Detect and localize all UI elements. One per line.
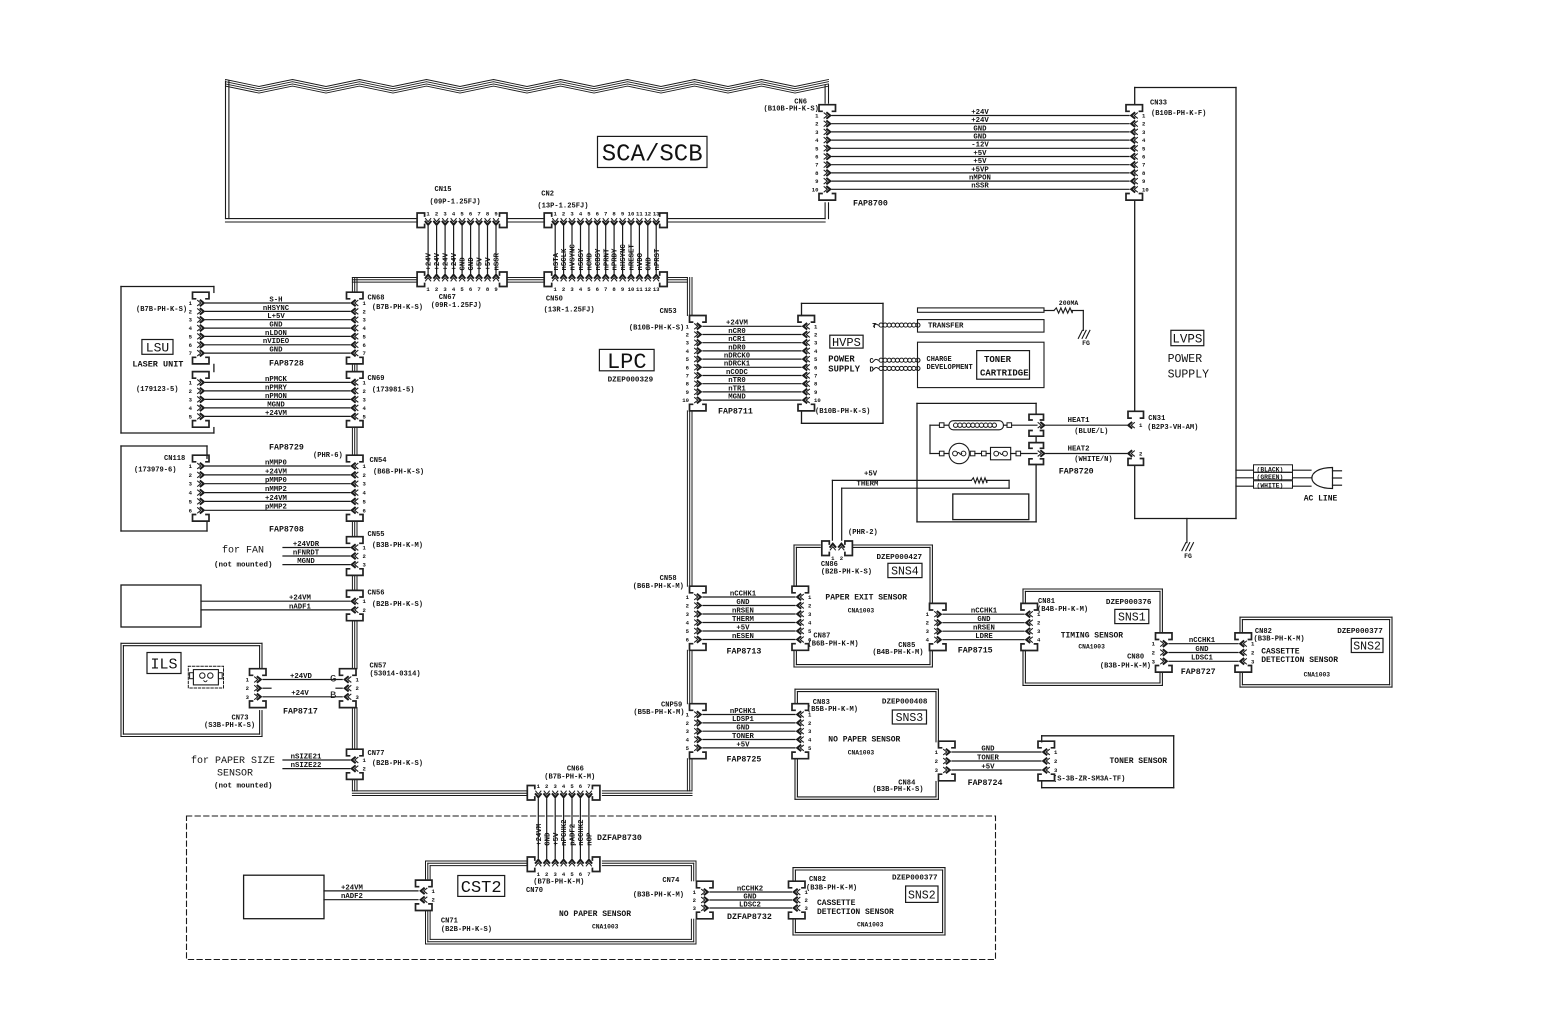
label CN67 bbox=[431, 294, 482, 310]
svg-text:FAP8700: FAP8700 bbox=[853, 200, 888, 209]
wire nSTA (CN2-CN50) bbox=[553, 227, 561, 274]
svg-text:nDRCK0: nDRCK0 bbox=[724, 353, 750, 361]
wire +5V (FAP8725) bbox=[703, 741, 795, 749]
connector CNP59 bbox=[686, 704, 706, 759]
svg-text:7: 7 bbox=[686, 373, 689, 380]
label CN71 bbox=[441, 918, 492, 935]
svg-text:CN87: CN87 bbox=[813, 633, 830, 641]
wire HEAT1 (FAP8720) bbox=[1046, 417, 1127, 436]
svg-text:FAP8708: FAP8708 bbox=[269, 526, 304, 535]
SCA/SCB board outline (torn-edge top) bbox=[226, 80, 829, 223]
svg-text:DZEP000427: DZEP000427 bbox=[877, 554, 923, 562]
svg-text:PAPER EXIT SENSOR: PAPER EXIT SENSOR bbox=[825, 593, 907, 602]
wire +5V (FAP8713) bbox=[703, 624, 795, 632]
svg-text:(B7B-PH-K-S): (B7B-PH-K-S) bbox=[372, 304, 423, 312]
svg-text:(173979-6): (173979-6) bbox=[134, 467, 177, 475]
svg-text:nSSR: nSSR bbox=[494, 252, 502, 270]
svg-text:SNS4: SNS4 bbox=[891, 566, 919, 579]
connector LSU video connector bbox=[189, 292, 209, 364]
svg-text:+24V: +24V bbox=[971, 117, 989, 125]
label CN66 bbox=[544, 766, 595, 782]
wire nVDO (CN2-CN50) bbox=[637, 227, 645, 274]
LSU title bbox=[132, 340, 183, 370]
wire MGND (fan cable) bbox=[283, 558, 350, 566]
wire LDRE (FAP8715) bbox=[943, 633, 1024, 641]
svg-text:nCR1: nCR1 bbox=[728, 336, 746, 344]
wire +24VM (FAP8708) bbox=[206, 495, 350, 503]
svg-text:-12V: -12V bbox=[971, 142, 989, 150]
label harness FAP8720 bbox=[1059, 468, 1094, 477]
svg-text:for FAN: for FAN bbox=[222, 545, 264, 557]
wire +24VM (FAP8729) bbox=[206, 410, 350, 418]
wire nCR0 (FAP8711) bbox=[703, 328, 801, 336]
svg-text:nSIZE22: nSIZE22 bbox=[291, 762, 322, 770]
heater connector HEAT2 (fuser side) bbox=[1029, 443, 1044, 465]
connector CN54 bbox=[347, 455, 367, 521]
fuser unit outline bbox=[917, 403, 1036, 522]
svg-text:10: 10 bbox=[814, 397, 821, 404]
wire pMMP0 (FAP8708) bbox=[206, 477, 350, 485]
svg-text:DETECTION SENSOR: DETECTION SENSOR bbox=[1261, 656, 1338, 665]
wire MGND (FAP8729) bbox=[206, 401, 350, 409]
svg-text:(PHR-6): (PHR-6) bbox=[313, 452, 343, 460]
svg-text:nCCHK2: nCCHK2 bbox=[737, 885, 763, 893]
svg-text:(09P-1.25FJ): (09P-1.25FJ) bbox=[430, 199, 481, 207]
wire nRSEN (FAP8713) bbox=[703, 607, 795, 615]
svg-text:CN118: CN118 bbox=[164, 455, 185, 463]
svg-text:nSSR: nSSR bbox=[971, 183, 989, 191]
wire THERM (FAP8713) bbox=[703, 616, 795, 624]
svg-text:(B6B-PH-K-M): (B6B-PH-K-M) bbox=[633, 583, 684, 591]
CST2 board outline bbox=[426, 861, 697, 944]
svg-text:(B2B-PH-K-S): (B2B-PH-K-S) bbox=[441, 926, 492, 934]
label harness DZFAP8730 bbox=[597, 834, 642, 843]
connector CN86 bbox=[822, 541, 853, 562]
connector CN77 bbox=[347, 749, 367, 779]
LVPS power supply outline bbox=[1135, 88, 1236, 519]
svg-text:+24V: +24V bbox=[426, 252, 434, 270]
svg-text:nSIZE21: nSIZE21 bbox=[291, 753, 322, 761]
svg-text:nSBSY: nSBSY bbox=[578, 248, 586, 271]
svg-text:7: 7 bbox=[477, 286, 480, 293]
svg-text:nCMD: nCMD bbox=[587, 252, 595, 270]
svg-text:CN77: CN77 bbox=[368, 750, 385, 758]
label harness FAP8727 bbox=[1181, 668, 1216, 677]
svg-text:+5V: +5V bbox=[553, 832, 561, 846]
svg-text:(GREEN): (GREEN) bbox=[1257, 474, 1284, 481]
connector LSU motor connector bbox=[189, 372, 209, 428]
LSU laser unit outline bbox=[121, 287, 214, 434]
wire heater loop (lamp to thermostat) bbox=[930, 425, 1037, 453]
svg-text:GND: GND bbox=[544, 832, 552, 846]
connector CN83 bbox=[792, 704, 812, 759]
svg-text:nVDO: nVDO bbox=[637, 252, 645, 270]
svg-text:L+5V: L+5V bbox=[267, 313, 285, 321]
wire nCCHK2 (DZFAP8730) bbox=[578, 799, 586, 858]
svg-text:SNS2: SNS2 bbox=[1353, 641, 1381, 654]
svg-text:FAP8727: FAP8727 bbox=[1181, 668, 1216, 677]
svg-text:+24VM: +24VM bbox=[726, 320, 749, 328]
svg-text:nDRCK1: nDRCK1 bbox=[724, 361, 751, 369]
wire nCBSY (CN2-CN50) bbox=[595, 227, 603, 274]
wire GND (FAP8700) bbox=[832, 125, 1129, 133]
svg-text:nPMCK: nPMCK bbox=[265, 376, 288, 384]
wire nCCHK1 (FAP8727) bbox=[1169, 637, 1238, 645]
svg-text:+24VM: +24VM bbox=[265, 495, 288, 503]
wire GND (FAP8728) bbox=[206, 347, 350, 355]
svg-text:(B4B-PH-K-M): (B4B-PH-K-M) bbox=[1037, 606, 1088, 614]
svg-text:GND: GND bbox=[460, 257, 468, 271]
svg-text:+5V: +5V bbox=[477, 257, 485, 271]
svg-text:nPRNT: nPRNT bbox=[603, 248, 611, 271]
label CN73 bbox=[204, 715, 255, 731]
svg-text:HVPS: HVPS bbox=[832, 336, 861, 350]
svg-text:nVIDEO: nVIDEO bbox=[263, 338, 290, 346]
svg-text:nCCHK1: nCCHK1 bbox=[971, 608, 998, 616]
svg-text:(B10B-PH-K-S): (B10B-PH-K-S) bbox=[764, 106, 819, 114]
wire nVSYNC (CN2-CN50) bbox=[570, 227, 578, 274]
label harness FAP8729 bbox=[269, 444, 304, 453]
svg-text:CN2: CN2 bbox=[541, 190, 554, 198]
svg-text:nCR0: nCR0 bbox=[728, 328, 746, 336]
wire nCMD (CN2-CN50) bbox=[587, 227, 595, 274]
svg-text:CNA1003: CNA1003 bbox=[1078, 643, 1105, 650]
connector CN74 bbox=[693, 881, 713, 919]
svg-text:nCCHK2: nCCHK2 bbox=[578, 820, 586, 846]
svg-text:+24VD: +24VD bbox=[290, 673, 313, 681]
svg-text:FAP8729: FAP8729 bbox=[269, 444, 304, 453]
wire nCR1 (FAP8711) bbox=[703, 336, 801, 344]
svg-text:(B7B-PH-K-M): (B7B-PH-K-M) bbox=[544, 774, 595, 782]
wire L+5V (FAP8728) bbox=[206, 313, 350, 321]
wire GND (CN15-CN67) bbox=[468, 227, 476, 274]
connector CN118 connector bbox=[189, 455, 209, 521]
svg-text:7: 7 bbox=[477, 210, 480, 217]
svg-text:GND: GND bbox=[269, 347, 283, 355]
svg-text:FAP8717: FAP8717 bbox=[283, 708, 318, 717]
wire nMMP2 (FAP8708) bbox=[206, 486, 350, 494]
svg-text:(B2B-PH-K-S): (B2B-PH-K-S) bbox=[821, 568, 872, 576]
connector toner sensor connector bbox=[1038, 741, 1058, 781]
thermistor body box bbox=[953, 494, 1029, 520]
svg-text:POWER: POWER bbox=[1168, 353, 1203, 366]
svg-text:+24VM: +24VM bbox=[536, 823, 544, 846]
wire LDSP1 (FAP8725) bbox=[703, 716, 795, 724]
svg-text:(not mounted): (not mounted) bbox=[214, 782, 273, 790]
label harness FAP8724 bbox=[968, 779, 1003, 788]
thermistor resistor bbox=[832, 470, 1009, 488]
wire nSBSY (CN2-CN50) bbox=[578, 227, 586, 274]
wire +5V (DZFAP8730) bbox=[553, 799, 561, 858]
svg-text:DZFAP8732: DZFAP8732 bbox=[727, 913, 772, 922]
wire nDRCK1 (FAP8711) bbox=[703, 361, 801, 369]
svg-text:(B6B-PH-K-M): (B6B-PH-K-M) bbox=[808, 640, 859, 648]
svg-text:CN56: CN56 bbox=[368, 590, 385, 598]
HVPS title bbox=[828, 335, 863, 374]
svg-text:CNA1003: CNA1003 bbox=[857, 922, 884, 929]
svg-text:TONER SENSOR: TONER SENSOR bbox=[1110, 757, 1168, 766]
connector CN2 bbox=[544, 210, 667, 227]
motor CN118 box bbox=[121, 446, 207, 531]
label CN6 bbox=[764, 99, 819, 114]
label CN33 bbox=[1150, 100, 1206, 119]
svg-text:nMMP0: nMMP0 bbox=[265, 459, 287, 467]
wire +5V (FAP8724) bbox=[952, 763, 1041, 771]
svg-text:nDR0: nDR0 bbox=[728, 344, 746, 352]
connector CN31 bbox=[1128, 411, 1144, 465]
svg-text:DZEP000377: DZEP000377 bbox=[1337, 628, 1383, 636]
wire GND (FAP8713) bbox=[703, 599, 795, 607]
wire +5V (FAP8700) bbox=[832, 158, 1129, 166]
wire stub pin2 (FAP8717) bbox=[263, 687, 342, 689]
svg-text:nRSEN: nRSEN bbox=[973, 625, 995, 633]
svg-text:DZEP000377: DZEP000377 bbox=[892, 875, 938, 883]
svg-text:CST2: CST2 bbox=[461, 879, 502, 898]
connector CN53 bbox=[682, 316, 706, 411]
cassette detection sensor board outline (SNS2 bottom) bbox=[793, 868, 945, 935]
wire TONER (FAP8724) bbox=[952, 754, 1041, 762]
svg-text:nRESET: nRESET bbox=[629, 244, 637, 271]
svg-text:+5VP: +5VP bbox=[971, 166, 989, 174]
svg-text:(B3B-PH-K-M): (B3B-PH-K-M) bbox=[372, 542, 423, 550]
svg-text:LDSP1: LDSP1 bbox=[732, 716, 755, 724]
ILS connector footprint icon bbox=[188, 666, 223, 688]
wire nHSYNC (FAP8728) bbox=[206, 305, 350, 313]
label CN2 bbox=[537, 190, 588, 210]
label HVPS input connector bbox=[815, 408, 870, 416]
connector CN73 bbox=[246, 669, 266, 708]
wire nADF2 (ADF2 cable) bbox=[324, 893, 418, 901]
svg-text:nTR1: nTR1 bbox=[728, 385, 746, 393]
svg-text:nCODC: nCODC bbox=[726, 369, 749, 377]
svg-text:NO PAPER SENSOR: NO PAPER SENSOR bbox=[828, 736, 900, 745]
svg-text:CNA1003: CNA1003 bbox=[848, 750, 875, 757]
svg-text:(not mounted): (not mounted) bbox=[214, 561, 273, 569]
ILS title bbox=[147, 653, 181, 674]
wire MGND (FAP8711) bbox=[703, 394, 801, 402]
wire +5V (FAP8700) bbox=[832, 150, 1129, 158]
svg-text:nPCHK1: nPCHK1 bbox=[730, 708, 757, 716]
label harness FAP8715 bbox=[958, 647, 993, 656]
svg-text:(B3B-PH-K-M): (B3B-PH-K-M) bbox=[1254, 635, 1305, 643]
wire nFNRDT (fan cable) bbox=[283, 549, 350, 557]
label CN57 bbox=[370, 663, 421, 679]
wire GND (DZFAP8732) bbox=[710, 893, 792, 901]
wire THERM drop to CN86 pin2 bbox=[841, 488, 843, 540]
label CN86 (PHR-2) bbox=[848, 529, 878, 537]
wire LDSC1 (FAP8727) bbox=[1169, 655, 1238, 663]
svg-text:(WHITE/N): (WHITE/N) bbox=[1074, 456, 1112, 464]
svg-text:TONER: TONER bbox=[977, 754, 1000, 762]
option box (nADF2 source) bbox=[244, 875, 324, 919]
svg-text:nPCHK2: nPCHK2 bbox=[561, 820, 569, 846]
wire nLDON (FAP8728) bbox=[206, 330, 350, 338]
svg-text:nADF1: nADF1 bbox=[289, 603, 312, 611]
svg-text:(B7B-PH-K-M): (B7B-PH-K-M) bbox=[533, 879, 584, 887]
svg-text:FAP8711: FAP8711 bbox=[718, 408, 753, 417]
wire pMMP2 (FAP8708) bbox=[206, 504, 350, 512]
svg-text:FAP8724: FAP8724 bbox=[968, 779, 1003, 788]
svg-text:DZEP000329: DZEP000329 bbox=[608, 376, 654, 384]
wire nSCLK (CN2-CN50) bbox=[561, 227, 569, 274]
svg-text:DZEP000408: DZEP000408 bbox=[882, 698, 928, 706]
label harness FAP8717 bbox=[283, 708, 318, 717]
svg-text:CHARGE: CHARGE bbox=[927, 356, 952, 364]
svg-text:(BLUE/L): (BLUE/L) bbox=[1074, 428, 1108, 436]
svg-text:CN80: CN80 bbox=[1127, 654, 1144, 662]
label LSU video connector bbox=[136, 306, 187, 314]
label CN58 bbox=[633, 575, 684, 591]
wire nTR0 (FAP8711) bbox=[703, 377, 801, 385]
wire nPCHK1 (FAP8725) bbox=[703, 708, 795, 716]
svg-text:C: C bbox=[870, 358, 874, 366]
charge/development outputs C and D bbox=[870, 342, 1045, 387]
svg-text:+24V: +24V bbox=[291, 690, 309, 698]
svg-text:+24V: +24V bbox=[434, 252, 442, 270]
option box (nADF1 source) bbox=[121, 585, 201, 627]
svg-text:B: B bbox=[330, 690, 336, 702]
svg-text:11: 11 bbox=[636, 286, 643, 293]
svg-text:(179123-5): (179123-5) bbox=[136, 386, 179, 394]
wire nDRCK0 (FAP8711) bbox=[703, 353, 801, 361]
svg-text:+24V: +24V bbox=[451, 252, 459, 270]
wire +24V (FAP8717) bbox=[263, 690, 342, 698]
svg-text:+5V: +5V bbox=[485, 257, 493, 271]
svg-text:nCBSY: nCBSY bbox=[595, 248, 603, 271]
svg-text:pADF2: pADF2 bbox=[570, 824, 578, 846]
svg-text:FAP8713: FAP8713 bbox=[727, 648, 762, 657]
svg-text:pMMP2: pMMP2 bbox=[265, 504, 287, 512]
wire nPMCK (FAP8729) bbox=[206, 376, 350, 384]
svg-text:AC LINE: AC LINE bbox=[1304, 494, 1338, 503]
svg-text:TONER: TONER bbox=[732, 733, 755, 741]
svg-text:GND: GND bbox=[743, 893, 757, 901]
wire nVIDEO (FAP8728) bbox=[206, 338, 350, 346]
svg-text:nVSYNC: nVSYNC bbox=[570, 244, 578, 271]
AC line plug bbox=[1236, 465, 1342, 504]
wire pADF2 (DZFAP8730) bbox=[570, 799, 578, 858]
svg-text:+5V: +5V bbox=[864, 470, 878, 478]
timing sensor board outline (SNS1) bbox=[1023, 589, 1162, 685]
label CNP59 bbox=[633, 701, 684, 717]
connector CN50 bbox=[544, 272, 667, 293]
svg-text:HEAT2: HEAT2 bbox=[1068, 445, 1090, 453]
label harness FAP8700 bbox=[853, 200, 888, 209]
svg-text:GND: GND bbox=[1195, 646, 1209, 654]
svg-text:FG: FG bbox=[1082, 340, 1090, 347]
transfer roller bar bbox=[918, 308, 1045, 312]
connector CN87 bbox=[792, 586, 812, 650]
label CN50 bbox=[544, 296, 595, 315]
svg-text:nPRDY: nPRDY bbox=[612, 248, 620, 271]
connector CN68 bbox=[347, 292, 367, 364]
wire GND (FAP8715) bbox=[943, 616, 1024, 624]
CST2 title bbox=[458, 876, 631, 931]
label harness FAP8725 bbox=[727, 756, 762, 765]
svg-text:GND: GND bbox=[269, 321, 283, 329]
wire TONER (FAP8725) bbox=[703, 733, 795, 741]
svg-text:CN50: CN50 bbox=[546, 296, 563, 304]
svg-text:LSU: LSU bbox=[146, 341, 169, 356]
wire +24V (CN15-CN67) bbox=[434, 227, 442, 274]
svg-text:CNA1003: CNA1003 bbox=[1304, 671, 1331, 678]
svg-text:+24VM: +24VM bbox=[265, 468, 288, 476]
svg-text:10: 10 bbox=[1142, 186, 1149, 193]
svg-text:(B10B-PH-K-F): (B10B-PH-K-F) bbox=[1151, 110, 1206, 118]
svg-text:CNA1003: CNA1003 bbox=[592, 924, 619, 931]
svg-text:CN71: CN71 bbox=[441, 918, 458, 926]
label for FAN bbox=[214, 545, 273, 570]
label CN53 bbox=[629, 308, 684, 333]
wire nSSR (CN15-CN67) bbox=[494, 227, 502, 274]
svg-text:(S-3B-ZR-SM3A-TF): (S-3B-ZR-SM3A-TF) bbox=[1053, 776, 1125, 784]
frame ground FG (LVPS) bbox=[1182, 519, 1194, 561]
connector CN69 bbox=[347, 372, 367, 428]
svg-text:(13R-1.25FJ): (13R-1.25FJ) bbox=[544, 307, 595, 315]
svg-text:MGND: MGND bbox=[267, 401, 285, 409]
wire nSSR (FAP8700) bbox=[832, 183, 1129, 191]
svg-text:SNS1: SNS1 bbox=[1118, 612, 1146, 625]
wire nMMP0 (FAP8708) bbox=[206, 459, 350, 467]
label harness FAP8713 bbox=[727, 648, 762, 657]
svg-text:CNA1003: CNA1003 bbox=[848, 607, 875, 614]
svg-text:(B4B-PH-K-M): (B4B-PH-K-M) bbox=[872, 649, 923, 657]
svg-text:nMPON: nMPON bbox=[969, 175, 991, 183]
svg-text:SUPPLY: SUPPLY bbox=[1168, 369, 1210, 382]
svg-text:G: G bbox=[330, 674, 336, 686]
wire nPRST (CN2-CN50) bbox=[654, 227, 662, 274]
svg-text:nSCLK: nSCLK bbox=[561, 248, 569, 271]
svg-text:SCA/SCB: SCA/SCB bbox=[602, 142, 703, 169]
svg-text:(B2P3-VH-AM): (B2P3-VH-AM) bbox=[1147, 424, 1198, 432]
wire -12V (FAP8700) bbox=[832, 142, 1129, 150]
label harness FAP8711 bbox=[718, 408, 753, 417]
svg-text:CN66: CN66 bbox=[567, 766, 584, 774]
wire nPMRY (FAP8729) bbox=[206, 384, 350, 392]
svg-text:(09R-1.25FJ): (09R-1.25FJ) bbox=[431, 302, 482, 310]
svg-text:+24V: +24V bbox=[971, 109, 989, 117]
svg-text:7: 7 bbox=[814, 373, 817, 380]
resistor 200MA fuse to frame ground bbox=[1044, 300, 1083, 330]
svg-text:NO PAPER SENSOR: NO PAPER SENSOR bbox=[559, 910, 631, 919]
wire +24V (FAP8700) bbox=[832, 117, 1129, 125]
svg-text:7: 7 bbox=[189, 350, 192, 357]
svg-text:7: 7 bbox=[587, 783, 590, 790]
wire +24VM (ADF1 cable) bbox=[201, 595, 350, 603]
label CN54 bbox=[313, 452, 424, 477]
svg-text:CARTRIDGE: CARTRIDGE bbox=[980, 368, 1029, 378]
optional cassette unit dashed boundary bbox=[187, 816, 996, 960]
LPC board outline bbox=[352, 278, 692, 796]
svg-text:12: 12 bbox=[644, 286, 651, 293]
wire GND (FAP8724) bbox=[952, 745, 1041, 753]
wire nPRDY (CN2-CN50) bbox=[612, 227, 620, 274]
label LSU motor connector bbox=[136, 386, 179, 394]
paper exit sensor board outline (SNS4) bbox=[794, 545, 932, 667]
label CN31 bbox=[1147, 415, 1198, 432]
wire +24V (CN15-CN67) bbox=[443, 227, 451, 274]
wire nPCHK2 (DZFAP8730) bbox=[561, 799, 569, 858]
svg-text:CN82: CN82 bbox=[809, 876, 826, 884]
svg-text:GND: GND bbox=[973, 134, 987, 142]
svg-text:THERM: THERM bbox=[857, 480, 880, 488]
svg-text:+5V: +5V bbox=[973, 158, 987, 166]
svg-text:(B6B-PH-K-S): (B6B-PH-K-S) bbox=[373, 469, 424, 477]
connector CN82 bbox=[1235, 633, 1255, 672]
svg-text:13: 13 bbox=[653, 210, 660, 217]
svg-text:GND: GND bbox=[977, 616, 991, 624]
svg-text:nPMON: nPMON bbox=[265, 393, 287, 401]
